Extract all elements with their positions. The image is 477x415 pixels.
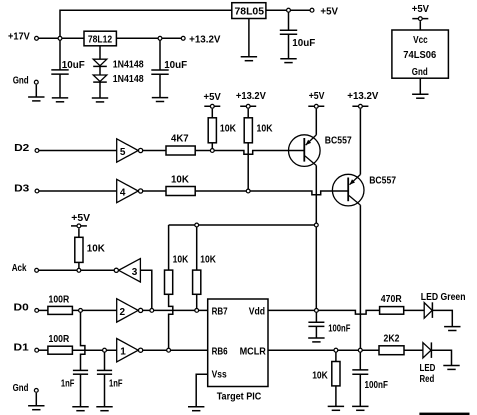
- svg-text:1N4148: 1N4148: [113, 74, 144, 85]
- wire C3 to ground: [288, 34, 290, 58]
- IC U4 Target PIC: [208, 299, 268, 403]
- svg-text:4K7: 4K7: [171, 134, 189, 145]
- wire MCLR node to C7: [359, 350, 361, 370]
- svg-text:100nF: 100nF: [365, 380, 388, 391]
- svg-text:10K: 10K: [171, 175, 190, 186]
- resistor R12 2K2: [379, 334, 404, 355]
- wire D0 node to C4 with hop: [81, 310, 85, 370]
- inverter U1E gate 5: [117, 139, 143, 162]
- svg-text:1nF: 1nF: [109, 379, 123, 390]
- svg-text:D3: D3: [14, 183, 30, 194]
- wire Vdd node to C6: [315, 310, 317, 322]
- resistor R4 10K: [166, 175, 195, 196]
- svg-text:LED: LED: [420, 363, 436, 374]
- wire LED2 to ground: [431, 350, 451, 365]
- svg-text:+5V: +5V: [71, 213, 90, 224]
- ground below U1: [412, 94, 428, 98]
- terminal +13.2V: [181, 34, 221, 45]
- svg-text:74LS06: 74LS06: [403, 50, 436, 61]
- svg-text:+5V: +5V: [309, 91, 325, 102]
- ground below diodes: [92, 98, 108, 102]
- node D1 junction: [103, 348, 107, 352]
- ground below C4: [72, 407, 88, 411]
- node R7-RB7 junction: [195, 309, 199, 313]
- transistor Q2 BC557: [332, 174, 396, 206]
- terminal +5V for U1: [412, 4, 430, 20]
- svg-text:10K: 10K: [87, 244, 106, 255]
- terminal +17V: [8, 31, 38, 42]
- regulator U3 78L05: [232, 3, 266, 19]
- node R2-D3 junction: [246, 189, 250, 193]
- resistor R3 4K7: [166, 134, 195, 155]
- svg-text:BC557: BC557: [325, 136, 352, 147]
- ground below 78L05: [241, 57, 257, 61]
- wire MCLR line: [268, 349, 379, 351]
- node R1-D2 junction: [210, 149, 214, 153]
- resistor R1 10K pull-up: [208, 118, 236, 143]
- svg-text:+5V: +5V: [412, 4, 430, 15]
- node R11-MCLR junction: [334, 348, 338, 352]
- svg-text:D2: D2: [14, 143, 30, 154]
- wire R9 to inverter 1: [72, 349, 116, 351]
- svg-text:100nF: 100nF: [328, 324, 350, 335]
- wire Vdd line with hop: [268, 310, 380, 314]
- svg-text:10K: 10K: [257, 124, 274, 135]
- node inverter3 tap junction: [150, 309, 154, 313]
- capacitor C4 1nF: [61, 370, 88, 389]
- svg-text:3: 3: [132, 267, 138, 278]
- resistor R10 470R: [380, 294, 404, 314]
- border fragment bottom right: [419, 413, 469, 415]
- capacitor C6 100nF: [308, 322, 350, 335]
- inverter U1A gate 1: [117, 339, 143, 362]
- regulator U2 78L12: [84, 31, 116, 46]
- wire R10 to LED1: [404, 309, 425, 311]
- transistor Q1 BC557: [289, 135, 353, 167]
- wire +5V to U1 Vcc: [419, 21, 421, 30]
- wire rail to R6: [168, 225, 170, 270]
- terminal +13.2V feed Q2: [347, 91, 378, 108]
- svg-text:+13.2V: +13.2V: [347, 91, 378, 102]
- node D0 junction: [79, 309, 83, 313]
- svg-text:1: 1: [120, 347, 126, 358]
- wire MCLR node to R11: [335, 350, 337, 361]
- wire Gnd lower down: [35, 393, 37, 406]
- svg-text:470R: 470R: [381, 294, 403, 305]
- svg-text:Ack: Ack: [12, 263, 27, 274]
- svg-text:1nF: 1nF: [61, 379, 75, 390]
- diode D5 1N4148: [93, 59, 144, 70]
- wire node to C2: [159, 38, 161, 70]
- wire R6 to RB6 line with hop: [169, 294, 173, 350]
- terminal D2: [14, 143, 39, 154]
- svg-text:2: 2: [120, 307, 126, 318]
- ground below C2: [152, 98, 168, 102]
- wire Ack to inverter 3: [38, 269, 114, 271]
- svg-text:+17V: +17V: [8, 31, 30, 42]
- wire R1 to D2 line: [211, 143, 213, 151]
- wire C5 to ground: [104, 374, 106, 407]
- wire switched Vdd rail: [169, 224, 317, 226]
- wire RB7 line: [143, 309, 208, 311]
- wire Q1 collector down to Vdd node: [315, 166, 317, 311]
- wire C4 to ground: [80, 374, 82, 407]
- inverter U1D gate 4: [117, 179, 143, 202]
- wire LED1 to ground: [432, 310, 452, 326]
- svg-text:10uF: 10uF: [164, 60, 187, 71]
- wire node to C3: [288, 10, 290, 30]
- svg-text:10uF: 10uF: [292, 38, 315, 49]
- wire inverter 4 to R4: [143, 190, 166, 192]
- wire D1 to R9: [39, 349, 48, 351]
- terminal D3: [14, 183, 39, 194]
- terminal +13.2V feed R2: [236, 91, 266, 108]
- wire +17V to 78L12 input: [38, 37, 84, 39]
- wire D2 to inverter 5: [39, 150, 117, 152]
- wire R2 to D3 line: [247, 143, 249, 191]
- terminal +5V feed R1: [204, 92, 222, 108]
- terminal Gnd upper: [13, 75, 38, 86]
- ground below C6: [308, 338, 324, 342]
- svg-text:10K: 10K: [312, 371, 328, 382]
- ground below C1: [52, 98, 68, 102]
- terminal D1: [14, 342, 39, 353]
- svg-text:78L12: 78L12: [88, 35, 113, 46]
- ground below R11: [328, 406, 344, 410]
- resistor R2 10K pull-up: [244, 118, 273, 143]
- inverter U1B gate 2: [117, 299, 143, 322]
- svg-text:+13.2V: +13.2V: [236, 91, 266, 102]
- svg-text:5: 5: [120, 147, 126, 158]
- svg-text:Vdd: Vdd: [249, 307, 265, 318]
- svg-text:1N4148: 1N4148: [113, 59, 144, 70]
- svg-text:+13.2V: +13.2V: [189, 34, 221, 45]
- ground below Vss: [188, 407, 204, 411]
- ground below LED2: [443, 366, 459, 370]
- wire rail to R7: [196, 225, 198, 270]
- wire R8 to inverter 2: [72, 309, 116, 311]
- svg-text:Vss: Vss: [212, 369, 227, 380]
- svg-text:Gnd: Gnd: [13, 75, 29, 86]
- inverter U1C gate 3: [114, 259, 140, 282]
- ground below LED1: [444, 327, 460, 331]
- svg-text:10K: 10K: [200, 255, 216, 266]
- svg-text:LED Green: LED Green: [421, 292, 466, 303]
- ground below C5: [96, 407, 112, 411]
- wire diodes to ground: [99, 82, 101, 98]
- wire R4 to Q2 base with hop: [195, 191, 347, 195]
- wire +5V to Q1 emitter: [315, 109, 317, 135]
- wire R7 to RB7 line: [196, 294, 198, 310]
- terminal +5V feed Q1: [308, 91, 324, 108]
- wire input rail to 78L05: [60, 10, 232, 70]
- resistor R5 10K pull-up: [75, 237, 106, 262]
- wire feed to R1: [211, 109, 213, 118]
- wire 78L05 output: [266, 9, 310, 11]
- wire 78L12 output: [116, 37, 181, 39]
- wire between diodes: [99, 66, 101, 75]
- svg-text:4: 4: [120, 188, 126, 199]
- wire C1 to ground: [59, 74, 61, 98]
- wire C2 to ground: [159, 74, 161, 97]
- svg-text:100R: 100R: [49, 294, 70, 305]
- LED1 green: [421, 292, 466, 318]
- svg-text:100R: 100R: [49, 334, 70, 345]
- IC U1 74LS06: [392, 30, 449, 78]
- svg-text:2K2: 2K2: [384, 334, 400, 345]
- wire D1 node to C5: [104, 350, 106, 370]
- wire feed to R5: [78, 228, 80, 237]
- diode D6 1N4148: [93, 74, 144, 85]
- svg-text:10uF: 10uF: [62, 60, 85, 71]
- svg-text:MCLR: MCLR: [240, 346, 267, 357]
- svg-text:Gnd: Gnd: [13, 383, 29, 394]
- terminal +5V feed R5: [71, 213, 90, 228]
- svg-text:D1: D1: [14, 342, 30, 353]
- node rail-R7 junction: [195, 223, 199, 227]
- svg-text:Red: Red: [420, 374, 435, 385]
- node A input junction: [58, 36, 62, 40]
- terminal D0: [14, 303, 39, 314]
- svg-text:78L05: 78L05: [235, 6, 265, 17]
- wire Vss to ground: [196, 374, 208, 407]
- capacitor C2 10uF: [151, 60, 187, 74]
- node R6-RB6 junction: [167, 348, 171, 352]
- terminal Gnd lower: [13, 383, 39, 394]
- capacitor C7 100nF: [352, 370, 388, 391]
- wire +13.2V to Q2 emitter: [359, 109, 361, 175]
- node 5V junction: [287, 8, 291, 12]
- wire D3 to inverter 4: [39, 190, 117, 192]
- capacitor C1 10uF input: [51, 60, 84, 74]
- wire D0 to R8: [39, 309, 48, 311]
- terminal Ack: [12, 263, 39, 274]
- wire U1 Gnd down: [419, 78, 421, 94]
- node Q2-MCLR junction: [358, 348, 362, 352]
- ground below C7: [352, 406, 368, 410]
- node 13V2 junction: [158, 36, 162, 40]
- svg-text:D0: D0: [14, 303, 30, 314]
- wire feed to R2: [247, 109, 249, 118]
- wire R11 to ground: [335, 386, 337, 407]
- wire inverter 3 input from RB7 line: [140, 270, 151, 310]
- node rail-Q1 junction: [314, 223, 318, 227]
- svg-text:Target PIC: Target PIC: [217, 392, 262, 403]
- svg-text:Vcc: Vcc: [413, 35, 428, 46]
- ground below Gnd lower: [28, 406, 44, 410]
- resistor R7 10K: [193, 255, 217, 295]
- ground below C3: [280, 59, 296, 63]
- resistor R11 10K: [312, 362, 340, 386]
- capacitor C5 1nF: [97, 370, 123, 389]
- wire R5 to Ack line: [78, 262, 80, 270]
- wire R3 to Q1 base with hop: [195, 151, 303, 155]
- node Vdd junction: [315, 309, 319, 313]
- wire Q2 collector down to MCLR node: [359, 205, 361, 350]
- node Ack junction: [77, 268, 81, 272]
- wire C6 to ground: [315, 326, 317, 338]
- svg-text:Gnd: Gnd: [412, 67, 428, 78]
- svg-text:10K: 10K: [220, 124, 237, 135]
- wire Gnd terminal down: [35, 85, 37, 97]
- ground below Gnd terminal: [28, 97, 44, 101]
- svg-text:BC557: BC557: [369, 176, 396, 187]
- wire 78L12 to diodes: [99, 46, 101, 59]
- capacitor C3 10uF: [280, 30, 315, 49]
- wire C7 to ground: [359, 374, 361, 406]
- svg-text:RB7: RB7: [212, 307, 228, 318]
- resistor R8 100R: [48, 294, 73, 314]
- svg-text:RB6: RB6: [212, 346, 228, 357]
- terminal +5V top: [310, 6, 338, 17]
- svg-text:10K: 10K: [173, 255, 189, 266]
- wire inverter 5 to R3: [143, 150, 166, 152]
- svg-text:+5V: +5V: [320, 6, 338, 17]
- wire RB6 line: [143, 349, 208, 351]
- svg-text:+5V: +5V: [204, 92, 222, 103]
- resistor R9 100R: [48, 334, 73, 354]
- LED2 red: [420, 342, 436, 385]
- wire 78L05 to ground: [248, 19, 250, 57]
- wire R12 to LED2: [404, 349, 423, 351]
- resistor R6 10K: [165, 255, 189, 295]
